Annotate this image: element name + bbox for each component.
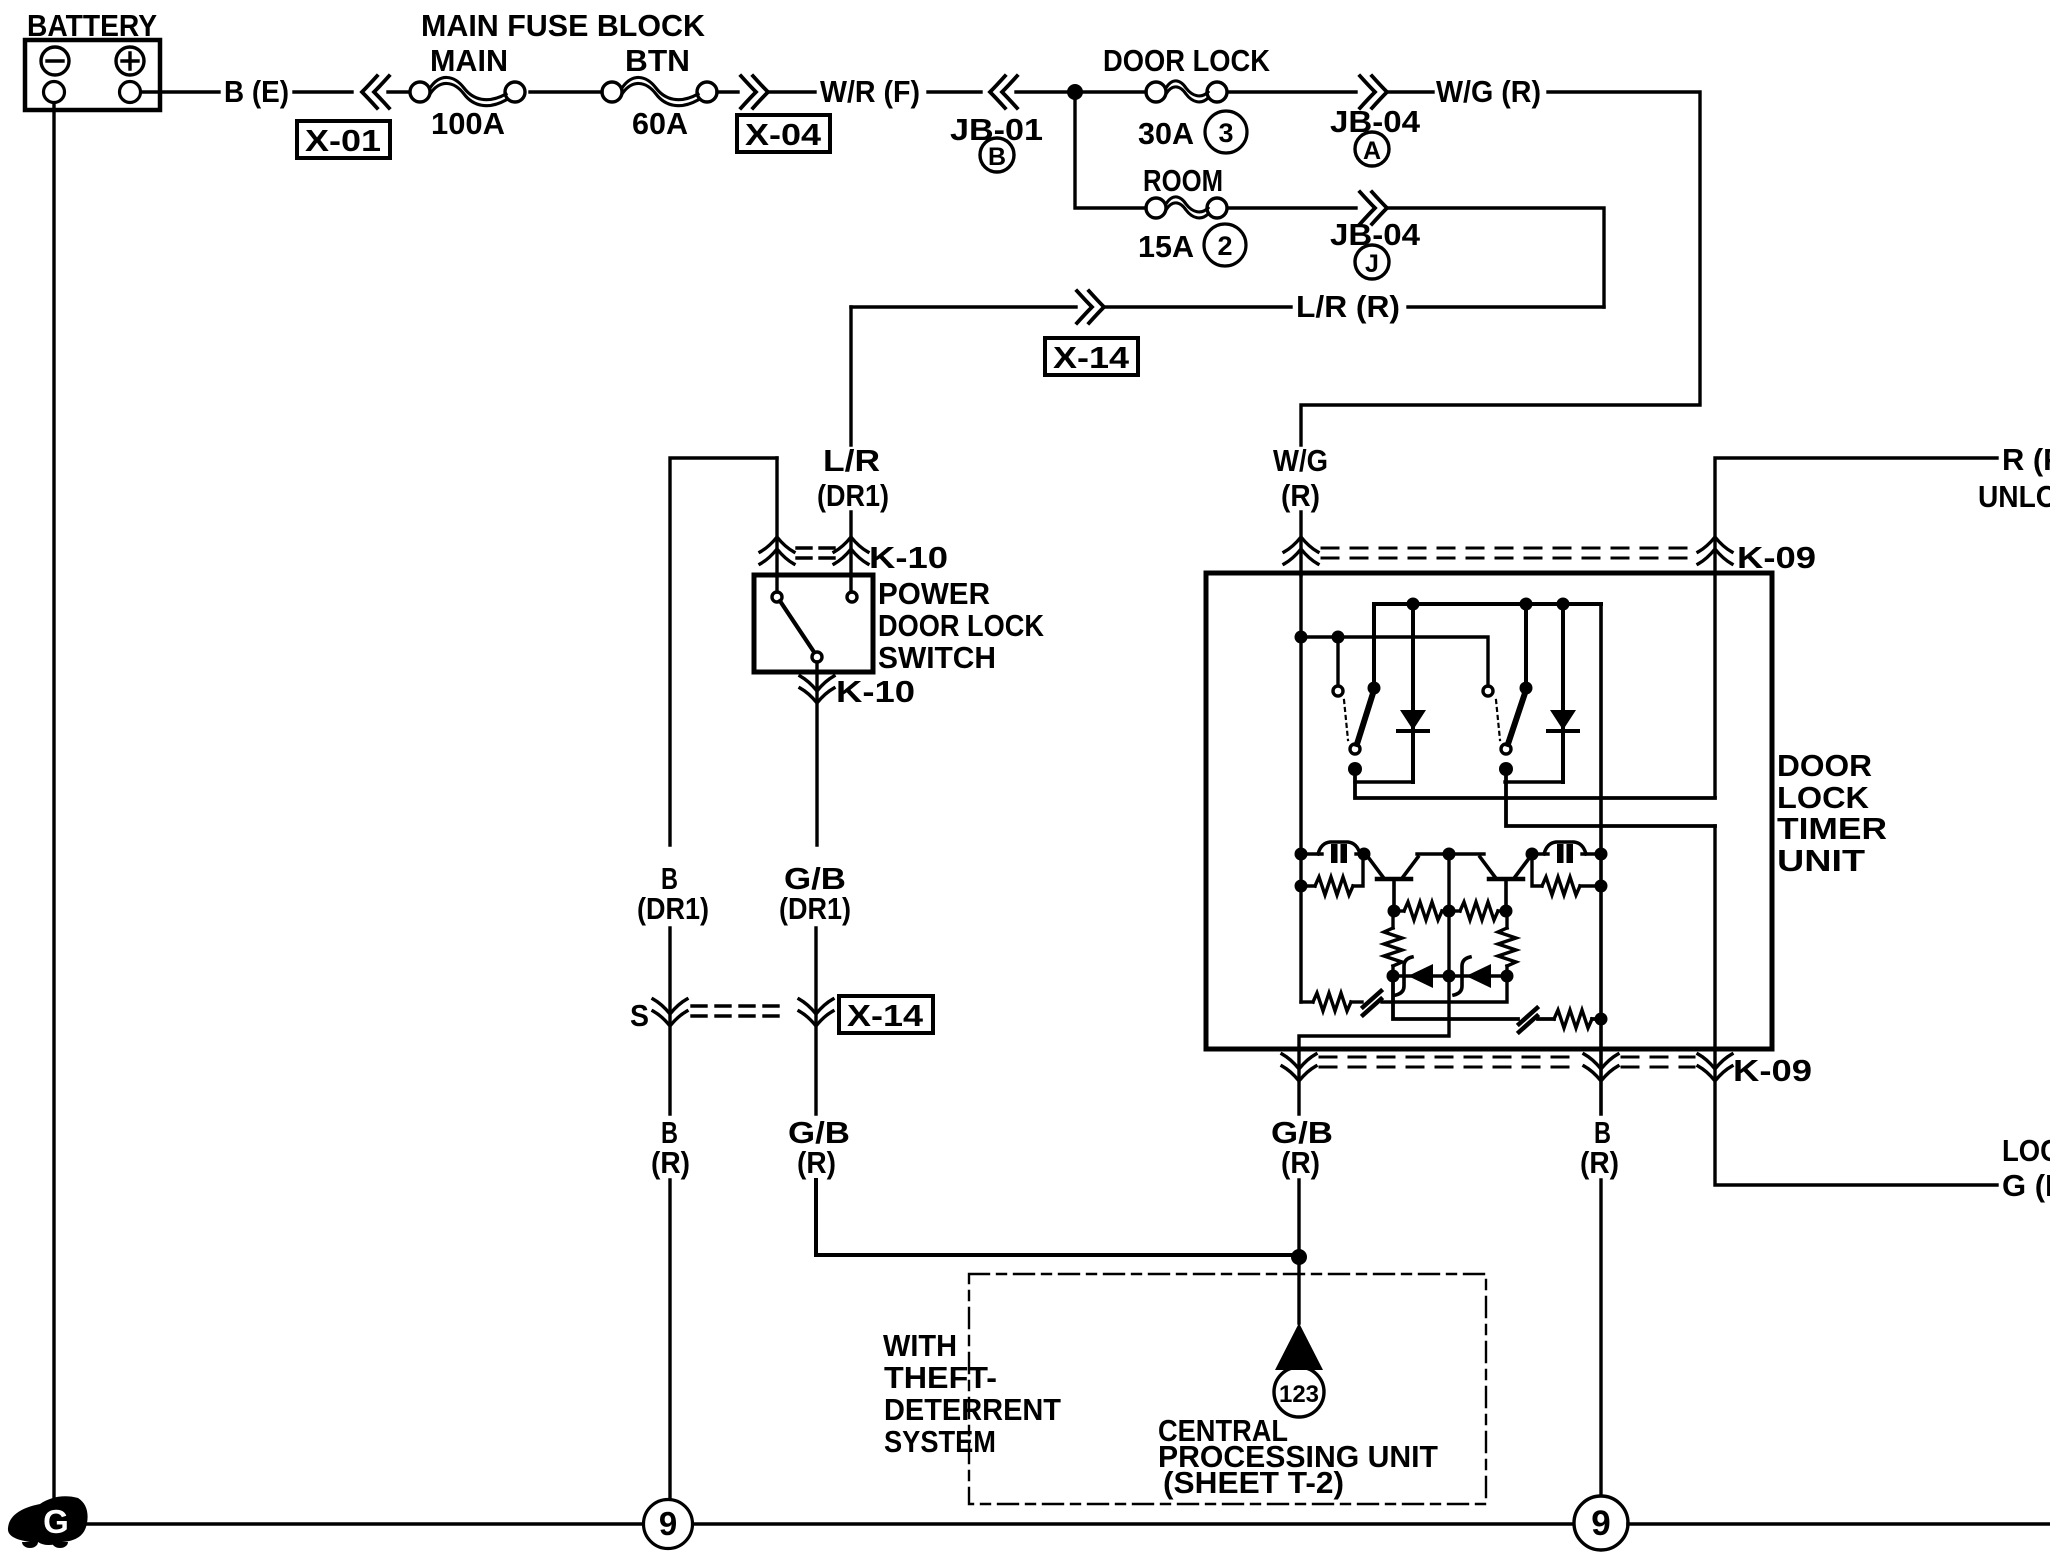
node bus diode2	[1557, 598, 1570, 611]
resistor R1	[1295, 854, 1364, 895]
wire L/R label to corner	[1408, 305, 1604, 308]
transistor Q1	[1368, 857, 1418, 911]
fuse BTN 60A	[602, 43, 717, 141]
svg-text:BTN: BTN	[625, 43, 690, 78]
svg-text:DOOR LOCK: DOOR LOCK	[878, 608, 1045, 643]
wire G/B down and right to CPU junction	[816, 1180, 1296, 1255]
label WITH THEFT-DETERRENT SYSTEM	[883, 1328, 1061, 1459]
wire W/G (R) to right corner down to timer	[1301, 92, 1700, 445]
svg-text:30A: 30A	[1138, 116, 1194, 151]
resistor R7 with shield to zener right	[1301, 976, 1507, 1015]
node zener right	[1501, 970, 1514, 983]
capacitor C1	[1295, 842, 1371, 863]
svg-text:LOCK: LOCK	[1777, 780, 1870, 815]
wire W/R to JB-01	[928, 90, 981, 93]
resistor R4	[1449, 902, 1506, 920]
wire label B (R) left	[651, 1115, 690, 1180]
svg-text:ROOM: ROOM	[1143, 163, 1223, 198]
connector JB-01 chevron	[990, 76, 1017, 108]
fuse MAIN 100A	[410, 43, 525, 141]
node base Q2	[1500, 905, 1513, 918]
svg-text:UNLOC: UNLOC	[1978, 479, 2050, 514]
connector S / X-14 bottom	[630, 996, 933, 1033]
node relay1 output	[1348, 762, 1362, 776]
svg-text:2: 2	[1217, 231, 1232, 261]
resistor R3	[1394, 902, 1449, 920]
svg-text:THEFT-: THEFT-	[884, 1360, 997, 1395]
wire switch common down	[815, 662, 818, 845]
CPU arrow terminal 123	[1274, 1323, 1324, 1417]
wire ground bus middle	[693, 1522, 1574, 1526]
svg-text:DOOR: DOOR	[1777, 748, 1872, 783]
svg-text:WITH: WITH	[883, 1328, 957, 1363]
diode D1	[1398, 604, 1428, 782]
connector label JB-04 circle A	[1330, 104, 1421, 166]
connector K-10 top	[760, 537, 948, 575]
wire relay feed line	[1301, 637, 1488, 686]
connector K-09 bottom	[1282, 1053, 1812, 1088]
wire L/R to switch pin	[849, 512, 852, 592]
relay2 throw dashed	[1496, 700, 1500, 740]
svg-text:60A: 60A	[632, 106, 688, 141]
svg-text:(R): (R)	[797, 1145, 836, 1180]
svg-text:(DR1): (DR1)	[817, 478, 889, 513]
wire battery positive to B (E)	[141, 90, 219, 93]
wire label B (DR1)	[637, 861, 709, 926]
svg-text:15A: 15A	[1138, 229, 1194, 264]
ground G symbol	[8, 1496, 88, 1548]
wire B vertical inside timer	[1599, 604, 1603, 1114]
svg-text:X-01: X-01	[305, 123, 381, 158]
svg-text:G (F: G (F	[2002, 1168, 2050, 1203]
connector circle 9 left	[644, 1500, 693, 1549]
wire W/G vertical inside timer	[1299, 575, 1302, 1002]
connector X-04 chevron	[741, 76, 768, 108]
zener diode ZD2	[1454, 957, 1491, 995]
fuse DOOR LOCK 30A (3)	[1103, 43, 1271, 153]
wire B branch from switch left	[670, 458, 777, 845]
svg-text:(R): (R)	[651, 1145, 690, 1180]
diode D2	[1548, 604, 1578, 782]
connector circle 9 right	[1574, 1496, 1628, 1550]
wire transistor collectors	[1417, 852, 1484, 855]
node mid row C	[1443, 905, 1456, 918]
wire relay2 output to lock line	[1506, 769, 1715, 826]
svg-text:(R): (R)	[1281, 478, 1320, 513]
fuse ROOM 15A (2)	[1138, 163, 1246, 266]
wire label L/R (DR1)	[817, 443, 889, 513]
svg-text:100A: 100A	[431, 106, 505, 141]
svg-text:L/R: L/R	[823, 443, 880, 478]
door lock timer unit box	[1206, 573, 1772, 1049]
svg-text:X-14: X-14	[847, 998, 924, 1033]
wire label W/G (R) vertical	[1273, 443, 1328, 513]
svg-text:(DR1): (DR1)	[637, 891, 709, 926]
svg-text:X-04: X-04	[745, 117, 822, 152]
svg-text:9: 9	[1591, 1504, 1610, 1543]
svg-text:B (E): B (E)	[224, 74, 289, 109]
wire ground bus left	[88, 1522, 644, 1526]
wire battery negative to ground	[52, 103, 55, 1497]
CPU dashed box	[969, 1274, 1486, 1504]
node CPU junction	[1291, 1249, 1307, 1265]
connector label X-04	[737, 115, 830, 152]
wire ROOM fuse to JB-04 J	[1228, 206, 1356, 209]
connector K-09 top	[1284, 537, 1816, 575]
wire G/B (R) down to CPU junction	[1297, 1180, 1300, 1255]
wire R (F) unlock line	[1715, 458, 1997, 796]
capacitor C2	[1526, 842, 1608, 863]
node zener mid	[1443, 970, 1456, 983]
wire DOOR LOCK fuse to JB-04 A	[1228, 90, 1356, 93]
svg-text:SWITCH: SWITCH	[878, 640, 996, 675]
svg-text:(SHEET T-2): (SHEET T-2)	[1163, 1465, 1344, 1500]
svg-text:(DR1): (DR1)	[779, 891, 851, 926]
wire L/R down to switch	[849, 307, 852, 445]
wire diode2 to relay2 output	[1505, 780, 1563, 783]
label CENTRAL PROCESSING UNIT (SHEET T-2)	[1158, 1413, 1438, 1500]
contact relay2 left	[1483, 686, 1493, 696]
node contact stub left	[1332, 631, 1345, 644]
wire junction down to ROOM fuse	[1075, 92, 1146, 208]
svg-text:(R): (R)	[1281, 1145, 1320, 1180]
wire JB-04 J right and down to L/R row	[1389, 208, 1604, 307]
connector label X-01	[297, 121, 390, 158]
transistor Q2	[1480, 857, 1530, 911]
svg-text:UNIT: UNIT	[1777, 843, 1865, 878]
wire W/G down into timer unit	[1299, 512, 1302, 575]
resistor R5 vertical left	[1384, 911, 1402, 976]
node base Q1	[1388, 905, 1401, 918]
timer label DOOR LOCK TIMER UNIT	[1777, 748, 1887, 878]
connector X-14 chevron on L/R row	[1077, 291, 1104, 323]
node relay1 pivot	[1368, 682, 1381, 695]
svg-text:X-14: X-14	[1053, 340, 1130, 375]
wire MAIN fuse to BTN fuse	[530, 90, 602, 93]
wire label B (R) timer	[1580, 1115, 1619, 1180]
wire diode1 to relay1 output	[1355, 780, 1413, 783]
battery B1	[25, 40, 160, 110]
wire label G/B (R) timer	[1271, 1115, 1333, 1180]
wire G/B down to X-14 connector	[814, 928, 817, 1114]
relay1 throw dashed	[1344, 700, 1348, 740]
svg-text:A: A	[1363, 137, 1381, 165]
connector JB-04 J chevron	[1360, 192, 1387, 224]
svg-text:K-09: K-09	[1737, 540, 1816, 575]
zener diode ZD1	[1396, 957, 1433, 995]
svg-text:W/G (R): W/G (R)	[1436, 74, 1541, 109]
wire bus to relay2 pivot	[1524, 604, 1528, 684]
wire zener row	[1393, 974, 1507, 977]
wire JB-01 to junction	[1016, 90, 1075, 93]
svg-text:3: 3	[1218, 118, 1233, 148]
connector JB-04 A chevron	[1360, 76, 1387, 108]
connector label X-14 box	[1045, 338, 1138, 375]
connector X-01 chevron	[362, 76, 389, 108]
svg-text:K-09: K-09	[1733, 1053, 1812, 1088]
svg-text:DOOR LOCK: DOOR LOCK	[1103, 43, 1271, 78]
wire junction to CPU arrow	[1297, 1257, 1300, 1323]
wire bus to relay1 pivot	[1372, 604, 1376, 684]
node on W/G feed	[1295, 631, 1308, 644]
wire label G/B (R) left	[788, 1115, 850, 1180]
node junction fuse branch	[1067, 84, 1083, 100]
svg-text:(R): (R)	[1580, 1145, 1619, 1180]
svg-text:LOC: LOC	[2002, 1133, 2050, 1168]
wire X-01 to MAIN fuse	[388, 90, 409, 93]
svg-text:POWER: POWER	[878, 576, 990, 611]
connector K-10 bottom	[800, 674, 915, 709]
svg-text:MAIN: MAIN	[430, 43, 508, 78]
svg-text:W/R (F): W/R (F)	[820, 74, 920, 109]
svg-text:123: 123	[1279, 1381, 1319, 1408]
svg-text:SYSTEM: SYSTEM	[884, 1424, 996, 1459]
node zener left	[1387, 970, 1400, 983]
connector label JB-04 circle J	[1330, 217, 1421, 279]
switch label POWER DOOR LOCK SWITCH	[878, 576, 1045, 675]
resistor R6 vertical right	[1498, 911, 1516, 976]
svg-text:K-10: K-10	[869, 540, 948, 575]
wire X-04 to W/R (F)	[770, 90, 815, 93]
wire L/R (R) row left segment	[851, 305, 1076, 308]
wire junction to DOOR LOCK fuse	[1075, 90, 1146, 93]
svg-text:JB-01: JB-01	[950, 112, 1043, 147]
node relay2 output	[1499, 762, 1513, 776]
wire BTN fuse to connector X-04	[717, 90, 738, 93]
wire JB-04 A to W/G (R) label	[1389, 90, 1433, 93]
wire B down to S connector	[668, 928, 671, 1114]
svg-text:R (F: R (F	[2002, 442, 2050, 477]
wire B (E) to connector X-01	[294, 90, 352, 93]
wire B down to ground bus circle 9	[668, 1180, 671, 1498]
relay1 arm tip	[1350, 744, 1360, 754]
svg-text:K-10: K-10	[836, 674, 915, 709]
resistor R2	[1532, 854, 1608, 895]
svg-text:DETERRENT: DETERRENT	[884, 1392, 1061, 1427]
svg-text:G: G	[43, 1503, 69, 1540]
wire relay1 output to unlock line	[1355, 769, 1715, 798]
relay1 armature	[1357, 690, 1374, 744]
node bus diode1	[1407, 598, 1420, 611]
wire contact stub left	[1336, 637, 1339, 685]
wire label G/B (DR1)	[779, 861, 851, 926]
wire mid vertical down to G/B	[1299, 854, 1449, 1114]
svg-text:MAIN FUSE BLOCK: MAIN FUSE BLOCK	[421, 8, 706, 43]
contact relay1 left	[1333, 686, 1343, 696]
wire G (F) lock line	[1715, 826, 1997, 1185]
node bus relay2	[1520, 598, 1533, 611]
svg-text:B: B	[988, 143, 1006, 171]
svg-text:S: S	[630, 998, 649, 1033]
node collector mid	[1443, 848, 1456, 861]
svg-text:TIMER: TIMER	[1777, 811, 1887, 846]
connector label JB-01 circle B	[950, 112, 1043, 172]
resistor R8 with shield to B line	[1393, 976, 1608, 1032]
node relay2 pivot	[1520, 682, 1533, 695]
power door lock switch S1	[754, 575, 873, 672]
wire B (R) down to ground circle 9	[1599, 1180, 1602, 1497]
relay2 armature	[1508, 690, 1526, 744]
wire ground bus right	[1628, 1522, 2050, 1526]
relay2 arm tip	[1501, 744, 1511, 754]
svg-text:J: J	[1365, 250, 1379, 278]
svg-text:W/G: W/G	[1273, 443, 1328, 478]
wire X-14 to L/R label	[1106, 305, 1291, 308]
wire top bus inside timer	[1374, 602, 1601, 606]
svg-text:L/R (R): L/R (R)	[1296, 289, 1400, 324]
